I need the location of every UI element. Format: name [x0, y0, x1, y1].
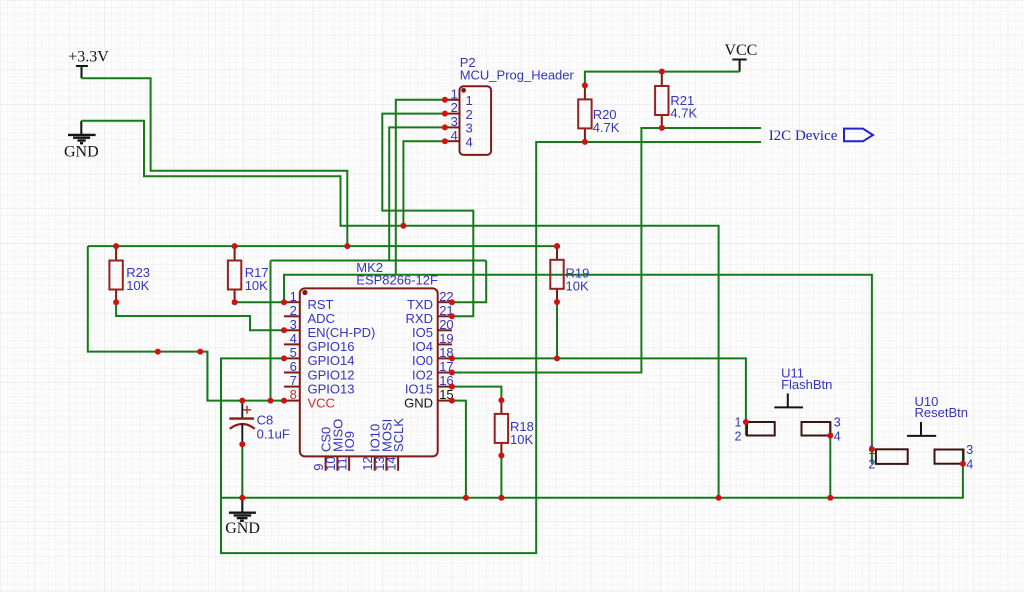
C8 top lead — [241, 401, 243, 419]
MK2 pin 21 terminal — [449, 313, 455, 319]
svg-text:GPIO14: GPIO14 — [308, 353, 355, 368]
net flag I2C Device — [769, 128, 873, 144]
MK2 pin 22 stub — [438, 301, 452, 303]
P2 pin 3 stub — [445, 126, 460, 128]
wire RST net R17 to pin — [235, 301, 284, 303]
pushbutton U10 ResetBtn — [868, 394, 973, 472]
svg-text:IO15: IO15 — [405, 381, 433, 396]
svg-text:IO2: IO2 — [412, 367, 433, 382]
junction VCC row net A — [268, 398, 274, 404]
MK2 pin 1 terminal — [281, 299, 287, 305]
pushbutton U11 FlashBtn — [735, 366, 841, 444]
MK2 pin 11 stub — [348, 456, 350, 470]
MK2 pin 7 stub — [284, 386, 300, 388]
svg-text:ResetBtn: ResetBtn — [915, 405, 968, 420]
wire R19 bottom to IO0 — [556, 302, 558, 358]
power flag VCC top-right — [724, 42, 757, 72]
junction R21 bottom I2C1 — [659, 125, 665, 131]
MK2 pin 6 stub — [284, 372, 300, 374]
svg-text:IO4: IO4 — [412, 339, 433, 354]
svg-text:I2C Device: I2C Device — [769, 128, 838, 144]
svg-text:GPIO13: GPIO13 — [308, 381, 355, 396]
svg-text:C8: C8 — [257, 412, 274, 427]
wire ResetBtn pin3-pin4 link — [962, 449, 964, 463]
P2 pin 2 stub — [445, 113, 460, 115]
svg-text:4: 4 — [966, 458, 973, 472]
MK2 pin 10 stub — [336, 456, 338, 470]
svg-text:3: 3 — [290, 317, 297, 332]
svg-text:5: 5 — [290, 345, 297, 360]
MK2 pin 21 stub — [438, 315, 452, 317]
junction C8 bottom terminal — [239, 441, 245, 447]
junction GND rail U11 — [827, 495, 833, 501]
wire IO15 to R18 — [452, 387, 502, 401]
wire GND loop rail2 / I2C line2 — [221, 142, 761, 553]
U11 left contact box — [747, 422, 775, 436]
R19 bottom stub — [556, 289, 558, 302]
svg-text:2: 2 — [868, 458, 875, 472]
wire net A drop to VCC row — [270, 261, 272, 401]
wire TXD to vertical — [452, 261, 486, 303]
svg-text:19: 19 — [439, 331, 453, 346]
svg-text:8: 8 — [290, 387, 297, 402]
svg-text:4.7K: 4.7K — [593, 120, 620, 135]
junction R23 bottom — [113, 299, 119, 305]
R23 top stub — [115, 246, 117, 260]
R17 top stub — [234, 246, 236, 260]
MK2 pin 17 terminal — [449, 370, 455, 376]
resistor R17 body — [228, 261, 241, 290]
junction R19 bottom terminal — [554, 299, 560, 305]
MK2 pin 3 stub — [284, 329, 300, 331]
U10 actuator stem — [920, 422, 922, 436]
svg-text:MCU_Prog_Header: MCU_Prog_Header — [460, 67, 575, 82]
MK2 pin 16 stub — [438, 386, 452, 388]
MK2 pin 9 stub — [325, 456, 327, 470]
R19 top stub — [556, 246, 558, 260]
P2 pin 2 terminal — [442, 111, 448, 117]
resistor R23 body — [109, 261, 122, 290]
resistor R23 group — [109, 246, 150, 302]
svg-text:11: 11 — [335, 457, 350, 471]
R18 bottom stub — [500, 443, 502, 456]
junction +3.3V rail R23 — [113, 243, 119, 249]
junction C8 GND rail — [239, 495, 245, 501]
svg-text:4: 4 — [466, 134, 473, 149]
MK2 pin 8 stub — [284, 400, 300, 402]
wire GPIO14 to GND rail — [221, 358, 284, 497]
wire EN net from R23 — [116, 302, 284, 330]
svg-text:RXD: RXD — [406, 311, 433, 326]
wire ESP GND pin to rail — [452, 401, 466, 498]
junction R17 bottom — [232, 299, 238, 305]
svg-text:4: 4 — [451, 128, 458, 143]
junction R18 top terminal — [498, 397, 504, 403]
P2 pin 1 stub — [445, 99, 460, 101]
U10 right contact box — [935, 450, 964, 464]
svg-text:GPIO16: GPIO16 — [308, 339, 355, 354]
ground symbol GND top-left — [64, 121, 99, 161]
wire +3.3V rail — [88, 245, 557, 247]
svg-text:RST: RST — [308, 297, 334, 312]
MK2 pin 17 stub — [438, 372, 452, 374]
wire RXD loop to P2 pin2 — [382, 114, 473, 317]
U11 pin 1 terminal — [743, 419, 749, 425]
resistor R20 body — [578, 99, 591, 128]
svg-text:IO0: IO0 — [412, 353, 433, 368]
svg-text:10K: 10K — [245, 278, 268, 293]
svg-text:GPIO12: GPIO12 — [308, 367, 355, 382]
wire +3.3V feed — [82, 78, 348, 246]
svg-text:7: 7 — [290, 373, 297, 388]
svg-text:20: 20 — [439, 317, 453, 332]
MK2 pin 18 terminal — [449, 355, 455, 361]
junction +3.3V rail R19 — [554, 243, 560, 249]
MK2 pin 5 terminal — [281, 355, 287, 361]
junction GND rail ESP — [463, 495, 469, 501]
wire IO2 to I2C line1 — [452, 128, 761, 373]
svg-text:GND: GND — [225, 520, 260, 537]
resistor R21 body — [655, 86, 668, 115]
junction R20 top terminal — [582, 82, 588, 88]
svg-text:EN(CH-PD): EN(CH-PD) — [308, 325, 376, 340]
P2 pin 4 stub — [445, 140, 460, 142]
wire P2 pin4 to GND line — [403, 141, 445, 226]
junction +3.3V rail feed — [344, 243, 350, 249]
MK2 pin 15 stub — [438, 400, 452, 402]
resistor R18 group — [495, 400, 534, 455]
junction dot B on 3.3V drop — [197, 349, 203, 355]
svg-text:SCLK: SCLK — [391, 418, 406, 452]
wire ResetBtn pin1-pin2 link — [871, 449, 873, 464]
wire net A P2 pin3 — [271, 260, 487, 262]
MK2 pin 15 terminal — [449, 398, 455, 404]
U11 right contact box — [802, 422, 831, 436]
R21 top stub — [661, 72, 663, 87]
U10 left contact box — [876, 449, 908, 464]
svg-text:2: 2 — [290, 303, 297, 318]
svg-text:IO5: IO5 — [412, 325, 433, 340]
resistor R18 body — [495, 414, 508, 443]
junction R20 bottom I2C2 — [582, 139, 588, 145]
svg-text:GND: GND — [404, 395, 433, 410]
resistor R19 group — [550, 246, 589, 302]
P2 pin 1 terminal — [442, 97, 448, 103]
power flag +3.3V — [68, 49, 109, 79]
svg-text:1: 1 — [735, 415, 742, 429]
P2 orientation dot — [461, 88, 466, 93]
U10 pin 4 terminal — [960, 461, 966, 467]
R20 bottom stub — [584, 128, 586, 142]
MK2 pin 4 stub — [284, 343, 300, 345]
junction dot A on 3.3V drop — [155, 349, 161, 355]
MK2 pin 12 stub — [374, 456, 376, 470]
MK2 pin 16 terminal — [449, 384, 455, 390]
MK2 pin 22 terminal — [449, 299, 455, 305]
R23 bottom stub — [115, 290, 117, 303]
MK2 pin 14 stub — [397, 456, 399, 470]
wire GND bottom rail — [221, 464, 963, 498]
wire C8 bottom to GND rail — [241, 444, 243, 498]
resistor R21 group — [655, 72, 697, 128]
svg-text:3: 3 — [451, 114, 458, 129]
wire P2 pin1 to RST line — [396, 100, 445, 275]
svg-text:FlashBtn: FlashBtn — [781, 377, 832, 392]
junction R21 top VCC — [659, 69, 665, 75]
junction R19 top terminal — [554, 243, 560, 249]
MK2 pin 8 terminal — [281, 398, 287, 404]
svg-text:3: 3 — [834, 415, 841, 429]
wire R18 bottom to GND rail — [500, 456, 502, 498]
svg-text:0.1uF: 0.1uF — [257, 426, 290, 441]
junction +3.3V rail R17 — [232, 243, 238, 249]
svg-text:1: 1 — [451, 86, 458, 101]
svg-text:2: 2 — [735, 430, 742, 444]
U11 actuator bar — [774, 406, 803, 408]
svg-text:2: 2 — [466, 107, 473, 122]
svg-text:6: 6 — [290, 359, 297, 374]
svg-text:ADC: ADC — [308, 311, 335, 326]
wire FlashBtn pin3-pin4 link — [829, 422, 831, 436]
junction VCC row C8 — [239, 398, 245, 404]
junction R19 IO0 — [554, 355, 560, 361]
svg-text:ESP8266-12F: ESP8266-12F — [356, 273, 438, 288]
svg-text:GND: GND — [64, 144, 99, 161]
MK2 pin 20 stub — [438, 329, 452, 331]
resistor R17 group — [228, 246, 269, 302]
R21 bottom stub — [661, 115, 663, 128]
IC MK2 ESP8266-12F body — [300, 288, 438, 456]
MK2 pin 18 stub — [438, 357, 452, 359]
svg-text:3: 3 — [466, 121, 473, 136]
svg-text:14: 14 — [384, 456, 399, 470]
junction GND line P2 pin4 — [400, 223, 406, 229]
resistor R20 group — [578, 85, 620, 141]
MK2 pin 5 stub — [284, 357, 300, 359]
U10 actuator bar — [907, 435, 936, 437]
C8 top plate — [229, 417, 254, 419]
wire P2 pin3 to net A — [389, 127, 445, 260]
wire FlashBtn pin1-pin2 link — [745, 422, 747, 436]
R17 bottom stub — [234, 290, 236, 303]
svg-text:4: 4 — [290, 331, 297, 346]
wire +3.3V rail drop to VCC pin row — [88, 246, 284, 401]
svg-text:10K: 10K — [126, 278, 149, 293]
MK2 pin 1 stub — [284, 301, 300, 303]
junction GND rail R18 — [498, 495, 504, 501]
svg-text:2: 2 — [451, 100, 458, 115]
junction R18 bottom terminal — [498, 453, 504, 459]
svg-text:1: 1 — [466, 93, 473, 108]
ground symbol GND bottom — [225, 499, 260, 537]
svg-text:3: 3 — [966, 443, 973, 457]
svg-text:+3.3V: +3.3V — [68, 49, 109, 66]
C8 bottom lead — [241, 424, 243, 444]
R20 top stub — [584, 85, 586, 99]
MK2 pin 13 stub — [385, 456, 387, 470]
P2 pin 3 terminal — [442, 124, 448, 130]
svg-text:10K: 10K — [510, 432, 533, 447]
MK2 orientation dot — [302, 290, 307, 295]
U11 pin 4 terminal — [827, 433, 833, 439]
MK2 pin 2 stub — [284, 315, 300, 317]
U11 actuator stem — [787, 393, 789, 407]
svg-text:IO9: IO9 — [342, 431, 357, 452]
P2 pin 4 terminal — [442, 138, 448, 144]
junction GND rail GND-line — [716, 495, 722, 501]
wire GND feed — [81, 121, 718, 498]
wire IO0 to FlashBtn — [452, 358, 746, 422]
svg-text:VCC: VCC — [308, 395, 335, 410]
MK2 pin 19 stub — [438, 343, 452, 345]
connector P2 body — [460, 86, 492, 155]
wire FlashBtn pin4 to GND rail — [829, 436, 831, 498]
R18 top stub — [500, 400, 502, 414]
capacitor C8 — [229, 401, 290, 445]
wire RST net to header and ResetBtn — [284, 275, 872, 450]
svg-text:VCC: VCC — [724, 42, 757, 59]
MK2 pin 3 terminal — [281, 327, 287, 333]
wire VCC top rail — [585, 72, 740, 86]
resistor R19 body — [550, 260, 563, 289]
svg-text:4.7K: 4.7K — [670, 106, 697, 121]
svg-text:4: 4 — [834, 430, 841, 444]
svg-text:TXD: TXD — [407, 297, 433, 312]
svg-text:10K: 10K — [566, 278, 589, 293]
U10 pin 1 terminal — [869, 446, 875, 452]
svg-text:1: 1 — [290, 289, 297, 304]
C8 bottom plate arc — [230, 424, 255, 429]
C8 plus sign — [243, 406, 251, 414]
